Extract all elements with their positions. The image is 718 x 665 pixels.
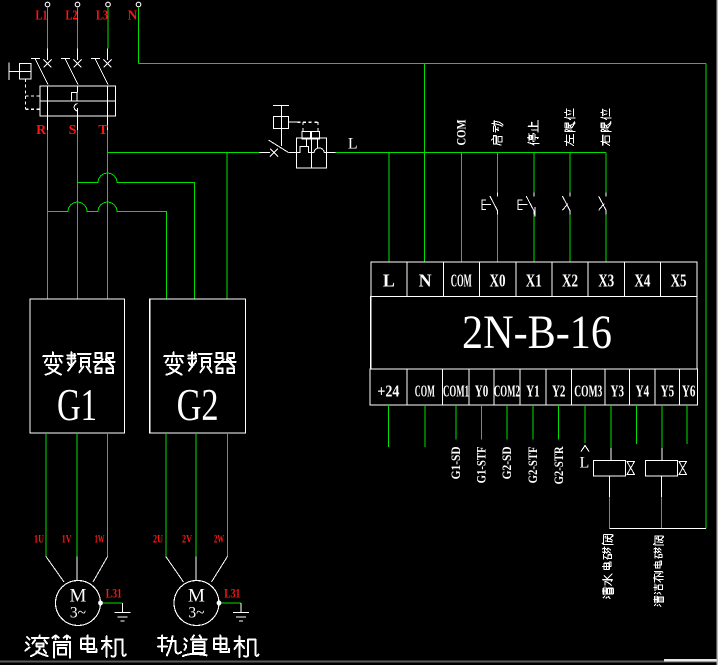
wire G2 W out bbox=[226, 433, 228, 557]
wire PLC output x=687 bbox=[686, 405, 688, 444]
breaker QF1 pole 3 stub bbox=[107, 49, 109, 61]
motor M2 leads bbox=[166, 557, 184, 583]
wire PLC output x=424.8 bbox=[424, 405, 426, 447]
aux breaker FU links bbox=[305, 139, 307, 147]
breaker QF1 pole 3 contact x bbox=[104, 59, 112, 67]
valve YV2 lead lower bbox=[661, 476, 663, 497]
breaker QF1 pole 2 out stub bbox=[77, 116, 79, 130]
svg-text:G2: G2 bbox=[177, 380, 219, 430]
aux breaker FU top squares bbox=[302, 131, 310, 139]
wire G1 W out bbox=[107, 433, 109, 557]
svg-text:COM: COM bbox=[415, 381, 435, 400]
svg-text:Y5: Y5 bbox=[661, 381, 675, 400]
wire G1 U out bbox=[45, 433, 47, 557]
motor M1 leads bbox=[46, 557, 64, 583]
wire G2 U out bbox=[165, 433, 167, 557]
label guidaodianji (track motor) bbox=[158, 635, 181, 655]
svg-text:L: L bbox=[348, 136, 358, 153]
svg-text:COM3: COM3 bbox=[574, 381, 602, 400]
breaker QF1 handle bar bbox=[8, 63, 10, 81]
label tingzhi (stop) bbox=[528, 121, 539, 146]
bottom frame line bbox=[0, 661, 718, 663]
PLC bottom terminal row bbox=[370, 369, 698, 405]
right frame line bbox=[716, 0, 718, 665]
wire T phase upper bbox=[107, 130, 109, 299]
breaker QF1 pole lines in box bbox=[47, 86, 49, 116]
wire PLC output x=481.5 bbox=[481, 405, 483, 439]
release link dashed bbox=[298, 121, 319, 123]
wire T drop to G2 bbox=[226, 152, 228, 299]
wire N drop bbox=[138, 7, 140, 64]
svg-text:Y3: Y3 bbox=[611, 381, 625, 400]
valve YV2 lead upper bbox=[661, 448, 663, 461]
wire YV1 down bbox=[609, 497, 611, 529]
release coil stem bbox=[280, 106, 282, 146]
svg-text:N: N bbox=[128, 8, 138, 23]
PLC top terminal row bbox=[371, 262, 697, 296]
breaker QF1 pole 2 blade bbox=[61, 58, 78, 84]
wire PLC output x=662 bbox=[661, 405, 663, 448]
terminal L2 bbox=[75, 2, 80, 7]
label zuoxianwei (left limit) bbox=[565, 109, 575, 146]
svg-text:2W: 2W bbox=[214, 531, 224, 545]
wire X input lower x=497.5 bbox=[497, 215, 499, 263]
wire M1 to ground bbox=[103, 602, 123, 604]
label qingjieji valve bbox=[654, 536, 664, 606]
valve YV1 coil bbox=[594, 461, 626, 477]
breaker QF1 trip linkage dashed bbox=[24, 79, 26, 109]
svg-text:2U: 2U bbox=[153, 531, 163, 545]
wire X input upper x=533.8 bbox=[533, 152, 535, 192]
terminal L3 bbox=[106, 2, 111, 7]
svg-text:Y2: Y2 bbox=[552, 381, 566, 400]
svg-text:G1-STF: G1-STF bbox=[475, 446, 489, 483]
svg-text:Y1: Y1 bbox=[526, 381, 540, 400]
wire R phase bbox=[47, 130, 49, 299]
breaker QF1 release box bbox=[40, 86, 116, 116]
wire L drop to PLC bbox=[388, 152, 390, 262]
limit switch SQ1 bbox=[569, 193, 571, 197]
wire S phase bbox=[77, 130, 79, 299]
wire M2 to ground bbox=[222, 602, 242, 604]
wire T branch (L line left) bbox=[108, 151, 260, 153]
svg-text:G2-STF: G2-STF bbox=[526, 446, 540, 483]
svg-text:Y4: Y4 bbox=[636, 381, 650, 400]
PLC top row dividers bbox=[406, 262, 408, 296]
svg-text:L3: L3 bbox=[96, 8, 108, 23]
valve YV2 coil bbox=[646, 461, 678, 477]
wire COM input bbox=[460, 152, 462, 262]
svg-text:T: T bbox=[98, 123, 108, 138]
wire L2 drop bbox=[77, 7, 79, 49]
pushbutton SB1 (start NO) bbox=[497, 193, 499, 197]
breaker QF1 pole 1 contact x bbox=[44, 59, 52, 67]
ground M2 bbox=[240, 603, 242, 613]
wire PLC output x=558.7 bbox=[558, 405, 560, 439]
svg-text:X0: X0 bbox=[490, 271, 506, 291]
svg-text:X4: X4 bbox=[634, 271, 650, 291]
svg-text:N: N bbox=[419, 271, 432, 291]
wire L3 drop bbox=[107, 7, 109, 49]
wire X input lower x=606.2 bbox=[605, 215, 607, 263]
pushbutton SB2 (stop NC) bbox=[533, 193, 535, 197]
wire PLC output x=611 bbox=[610, 405, 612, 448]
breaker QF1 handle box bbox=[20, 64, 32, 80]
inverter G1 box bbox=[30, 299, 125, 433]
breaker QF1 magnetic bump bbox=[74, 104, 77, 111]
svg-text:G2-SD: G2-SD bbox=[500, 446, 514, 479]
breaker QF1 pole 3 blade bbox=[91, 58, 108, 84]
valve YV2 symbol bbox=[679, 462, 687, 475]
breaker QF1 pole 1 blade bbox=[31, 58, 48, 84]
ground M1 bbox=[122, 603, 124, 613]
svg-text:R: R bbox=[36, 123, 47, 138]
motor M2 junction dot bbox=[217, 601, 222, 606]
limit switch SQ2 bbox=[605, 193, 607, 197]
breaker QF1 pole 1 out stub bbox=[47, 116, 49, 130]
svg-text:S: S bbox=[69, 123, 77, 138]
svg-text:G1: G1 bbox=[57, 380, 97, 430]
wire X input lower x=570 bbox=[569, 215, 571, 263]
svg-text:G2-STR: G2-STR bbox=[552, 446, 566, 485]
aux breaker FU box bbox=[296, 138, 326, 168]
svg-text:3~: 3~ bbox=[188, 605, 204, 622]
wire X input upper x=497.5 bbox=[497, 152, 499, 192]
svg-text:M: M bbox=[188, 586, 205, 607]
breaker QF1 handle link bbox=[9, 71, 20, 73]
release coil box bbox=[273, 116, 288, 128]
svg-text:COM: COM bbox=[451, 271, 472, 291]
wire G2 V out bbox=[195, 433, 197, 557]
PLC main box bbox=[371, 296, 697, 369]
breaker QF1 pole 2 stub bbox=[77, 49, 79, 61]
label qingshui valve bbox=[602, 535, 613, 599]
wire PLC output x=532.9 bbox=[532, 405, 534, 439]
wire PLC output x=506.9 bbox=[506, 405, 508, 439]
wire S branch to G2 bbox=[78, 173, 195, 299]
svg-text:1V: 1V bbox=[62, 531, 72, 545]
breaker QF1 thermal notch bbox=[71, 92, 77, 101]
wire X input lower x=533.8 bbox=[533, 215, 535, 263]
svg-text:L1: L1 bbox=[36, 8, 48, 23]
inverter G2 box bbox=[150, 299, 246, 433]
motor M2 circle bbox=[174, 581, 219, 626]
svg-text:L2: L2 bbox=[66, 8, 78, 23]
svg-text:L: L bbox=[580, 455, 590, 472]
svg-text:X3: X3 bbox=[598, 271, 614, 291]
svg-text:COM: COM bbox=[454, 120, 469, 146]
svg-text:COM1: COM1 bbox=[443, 381, 469, 400]
svg-text:L31: L31 bbox=[224, 587, 240, 601]
aux breaker FU stub right bbox=[327, 151, 336, 153]
motor M1 junction dot bbox=[98, 601, 103, 606]
COM3 to-L arrow bbox=[581, 446, 589, 452]
disconnect QS blade bbox=[269, 140, 289, 152]
breaker QF1 pole 1 stub bbox=[47, 49, 49, 61]
wire R branch to G2 bbox=[48, 202, 167, 299]
label guntongdianji (drum motor) bbox=[25, 635, 48, 656]
breaker QF1 pole 3 out stub bbox=[107, 116, 109, 130]
wire valve return bottom bbox=[610, 528, 707, 530]
inverter G2 label bianpinqi bbox=[164, 352, 183, 374]
disconnect QS contact x bbox=[270, 149, 278, 157]
label youxianwei (right limit) bbox=[601, 109, 611, 146]
aux breaker FU thermal bbox=[296, 147, 311, 153]
wire YV2 down bbox=[661, 497, 663, 529]
wire PLC output x=636.4 bbox=[635, 405, 637, 444]
disconnect QS stub left bbox=[259, 151, 270, 153]
wire L line right bbox=[335, 151, 606, 153]
svg-text:2N-B-16: 2N-B-16 bbox=[462, 306, 612, 359]
aux breaker FU magnetic bbox=[311, 148, 326, 152]
release link solid bbox=[289, 121, 298, 123]
svg-text:2V: 2V bbox=[182, 531, 192, 545]
svg-text:Y6: Y6 bbox=[682, 381, 696, 400]
wire X input upper x=606.2 bbox=[605, 152, 607, 192]
label qidong (start) bbox=[491, 121, 503, 146]
svg-text:3~: 3~ bbox=[70, 605, 86, 622]
svg-text:G1-SD: G1-SD bbox=[449, 446, 463, 479]
valve YV1 lead upper bbox=[610, 448, 612, 461]
svg-text:X1: X1 bbox=[526, 271, 542, 291]
svg-text:X5: X5 bbox=[671, 271, 687, 291]
motor M1 circle bbox=[56, 581, 101, 626]
disconnect QS stub right bbox=[288, 151, 296, 153]
valve YV1 lead lower bbox=[609, 476, 611, 497]
terminal N bbox=[136, 2, 141, 7]
svg-text:M: M bbox=[70, 586, 87, 607]
wire N drop to PLC bbox=[424, 64, 426, 263]
inverter G1 label bianpinqi bbox=[43, 352, 62, 374]
svg-text:X2: X2 bbox=[562, 271, 578, 291]
wire L1 drop bbox=[47, 7, 49, 49]
PLC bottom row dividers bbox=[406, 369, 408, 405]
wire G1 V out bbox=[76, 433, 78, 557]
wire N return right side bbox=[705, 64, 707, 529]
valve YV1 symbol bbox=[627, 462, 635, 475]
wire PLC output x=585 bbox=[584, 405, 586, 443]
breaker QF1 pole 2 contact x bbox=[74, 59, 82, 67]
svg-text:1W: 1W bbox=[95, 531, 105, 545]
wire X input upper x=570 bbox=[569, 152, 571, 192]
wire N horizontal bbox=[139, 63, 707, 65]
terminal L1 bbox=[45, 2, 50, 7]
svg-text:L: L bbox=[383, 271, 395, 291]
svg-text:+24: +24 bbox=[377, 381, 399, 400]
svg-text:Y0: Y0 bbox=[475, 381, 489, 400]
wire PLC output x=456 bbox=[455, 405, 457, 439]
svg-text:COM2: COM2 bbox=[494, 381, 520, 400]
svg-text:L31: L31 bbox=[106, 587, 122, 601]
wire PLC output x=388.4 bbox=[387, 405, 389, 447]
svg-text:1U: 1U bbox=[34, 531, 44, 545]
